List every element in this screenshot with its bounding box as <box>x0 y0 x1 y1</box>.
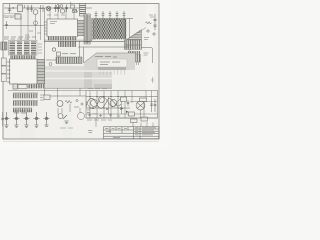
wedge hatch <box>125 28 146 41</box>
scan streak band 3 <box>118 4 130 140</box>
border frame <box>3 4 159 140</box>
analog inner rail 4 <box>130 101 158 103</box>
resistor network zigzag row 3a <box>93 27 127 31</box>
analog label text row <box>87 119 112 121</box>
capacitor C1 <box>8 4 11 13</box>
wire stubs into U1 top <box>50 8 74 19</box>
module board slab upper <box>84 53 135 70</box>
open circle T1 <box>78 113 85 120</box>
extra analog verticals 2 <box>109 97 122 115</box>
wire vertical mid <box>79 41 81 57</box>
wire top rail <box>4 7 92 9</box>
top-right capacitor C7 <box>153 14 156 30</box>
connector J1 ladder <box>84 14 90 44</box>
module pad pins <box>100 70 125 75</box>
connector J3 <box>127 51 141 62</box>
module white label <box>97 59 127 67</box>
vertical drop x21 <box>20 16 22 40</box>
trimmer VR2 <box>14 112 20 128</box>
header pin band 2 <box>125 45 142 49</box>
capacitor C11 in analog <box>127 100 130 106</box>
small zigzag R10 <box>73 10 79 12</box>
stub wires bottom cluster <box>58 104 80 114</box>
capacitor C6 <box>65 5 68 13</box>
analog inner rail 1 <box>86 96 158 98</box>
signal curve 2 <box>86 97 124 109</box>
U1 right pins <box>78 21 85 36</box>
small circle pair A <box>57 5 60 8</box>
red mark above table <box>93 113 97 115</box>
relay K2 box <box>15 14 21 19</box>
U4 left pins <box>7 62 11 82</box>
junction dots analog <box>89 96 118 109</box>
diode D4 <box>44 95 50 100</box>
top-right cluster resistor R3 <box>146 22 152 24</box>
module pad bar <box>98 67 126 70</box>
IC U4 box <box>10 59 38 84</box>
vertical drop x28 <box>27 12 29 40</box>
wire L right <box>142 48 153 64</box>
transistor Q6 <box>91 100 98 107</box>
module label text <box>95 57 120 65</box>
capacitor C12 on left frame <box>1 112 4 126</box>
connector J2 stack <box>1 58 6 82</box>
capacitor C8 <box>150 99 153 112</box>
capacitor C2 <box>27 5 30 12</box>
resistor array RN2 <box>13 101 38 106</box>
resistor R5 <box>129 112 135 116</box>
op-amp U1 box <box>47 19 78 37</box>
module bottom pad row <box>94 84 112 88</box>
resistor R7 <box>131 119 138 123</box>
resistor network zigzag row 5a <box>93 35 127 39</box>
relay K1 <box>18 5 23 12</box>
label dashes right mid <box>144 53 149 55</box>
header pin band 1 <box>125 40 142 45</box>
resistor R9 <box>121 97 127 102</box>
resistor network zigzag row 4b <box>93 31 127 35</box>
capacitor C3 <box>30 5 33 12</box>
capacitor C9 <box>154 99 157 112</box>
resistor network zigzag row 4a <box>93 31 127 35</box>
analog inner rail 3 <box>86 113 158 115</box>
transistor Q4 <box>52 48 55 51</box>
label dashes under caps <box>47 14 65 16</box>
vertical wire x57 <box>57 89 59 101</box>
arrow mark 2 <box>126 111 129 114</box>
U1 internal label <box>50 22 57 24</box>
transistor Q7 <box>99 97 105 103</box>
zigzag block side rails <box>92 20 94 40</box>
label dashes top-left <box>5 17 14 19</box>
glyph row above table <box>88 114 120 118</box>
resistor network zigzag row 2b <box>93 23 127 27</box>
U4 right pin ladder <box>37 60 45 84</box>
page background <box>0 0 170 150</box>
resistor R4 <box>65 100 72 103</box>
transistor Q11 <box>33 21 37 25</box>
label dashes near header <box>144 38 149 40</box>
scan streak band 2 <box>62 4 72 140</box>
label +5V <box>40 95 44 100</box>
node A <box>13 7 14 8</box>
resistor R8 <box>141 117 148 121</box>
analog label row <box>88 87 107 89</box>
bus under U1 <box>44 40 133 42</box>
trimmer VR3 <box>24 112 30 128</box>
resistor R1 <box>39 5 45 12</box>
diode D2 <box>73 10 77 13</box>
wire bottom of analog <box>86 117 158 119</box>
signal curve 1 <box>86 98 121 108</box>
vertical drop x40 <box>40 12 42 40</box>
U1 left pins <box>44 22 47 34</box>
J3 bottom stubs <box>129 62 139 65</box>
vertical wire right drop <box>129 19 131 53</box>
scan streak band 4 <box>146 4 154 140</box>
wire to resistor block <box>92 18 134 20</box>
module darker column <box>84 72 92 88</box>
capacitor C5 <box>57 5 60 13</box>
sheet number text <box>88 131 93 133</box>
resistor network zigzag row 1b <box>93 19 127 23</box>
under-bus comb <box>58 42 76 48</box>
IC U3 banded block <box>9 41 38 56</box>
wire mid-left rail <box>3 25 44 27</box>
analog section box <box>86 91 158 119</box>
transistor Q10 <box>58 114 69 124</box>
left analog marks <box>87 110 90 113</box>
resistor row band <box>56 57 82 64</box>
resistor array RN3 <box>13 108 32 112</box>
vertical wire x80 <box>79 88 81 96</box>
arrow mark 1 <box>121 107 124 110</box>
white wire stripe 2 <box>45 78 112 79</box>
transistor Q2 <box>46 6 51 11</box>
small cross node a <box>146 29 156 36</box>
top-right label <box>149 15 154 17</box>
bottom-left labels <box>13 111 32 113</box>
resistor network zigzag row 2a <box>93 23 127 27</box>
wire module left drop <box>83 47 85 63</box>
U1 bottom pin comb <box>48 37 78 41</box>
module bottom edge <box>45 87 112 89</box>
vertical drops in analog box <box>90 91 125 119</box>
small part dashes <box>74 99 83 107</box>
mid label dashes <box>62 53 76 55</box>
wire mid left horizontal <box>44 95 86 97</box>
component row under U4 <box>13 84 18 89</box>
pin number dashes right of U2 <box>38 44 42 53</box>
capacitor C4 <box>54 5 57 13</box>
resistor array RN1 <box>13 93 38 98</box>
transistor Q1 <box>33 10 38 15</box>
U2 label text <box>4 37 36 39</box>
tick x24 <box>24 5 26 8</box>
vertical wire left of resistor block <box>91 19 93 42</box>
stubs into table top <box>133 122 153 127</box>
wire second rail left <box>3 15 21 17</box>
bottom margin line <box>3 140 159 142</box>
title block <box>104 127 160 139</box>
trimmer VR5 <box>44 112 50 126</box>
transistor Q5 <box>57 101 63 107</box>
trimmer VR1 <box>4 112 10 128</box>
small marks mid-left <box>25 31 41 35</box>
analog inner rail 2 <box>86 107 130 109</box>
white wire stripe 1 <box>45 70 112 71</box>
red junction dot 2 <box>106 108 108 110</box>
module slab lower left <box>84 70 112 88</box>
transistor Q3 <box>60 9 64 13</box>
diode D3 <box>57 52 61 56</box>
bus second line <box>44 39 92 41</box>
trimmer VR4 <box>34 112 40 128</box>
connector J0 top ladder <box>80 4 86 17</box>
scan streak band 1 <box>20 4 34 140</box>
module slab left extension <box>45 66 84 88</box>
pin comb row <box>27 84 44 89</box>
resistor network zigzag row 1a <box>93 19 127 23</box>
wire into title block <box>95 118 97 127</box>
wire stub to frame <box>70 2 72 5</box>
transistor Q9 can <box>136 101 145 110</box>
diode D1 <box>71 5 75 8</box>
small circle pair B <box>60 5 63 8</box>
stub columns to RC array <box>95 11 126 20</box>
long vertical wire left of U1 <box>43 8 45 96</box>
transistor Q8 <box>110 100 117 107</box>
title block text <box>105 128 156 138</box>
red junction dot 1 <box>92 107 94 109</box>
U4 top pin comb <box>10 56 36 60</box>
sheet interior <box>3 4 159 140</box>
small marks left of band <box>46 60 56 66</box>
wire lower top rail <box>4 13 20 15</box>
small glyph right margin <box>151 77 154 83</box>
wire bus top of analog <box>8 90 86 92</box>
IC U2 connector block <box>1 42 7 50</box>
vertical drop x35 <box>35 15 37 41</box>
inductor L1 <box>18 85 27 89</box>
capacitor C10 <box>5 21 8 29</box>
wire above module <box>78 46 130 48</box>
resistor network zigzag row 5b <box>93 35 127 39</box>
resistor R6 <box>140 98 147 102</box>
module slab edge <box>84 53 135 63</box>
faint text bottom <box>60 127 73 129</box>
extra analog verticals <box>132 91 152 119</box>
resistor network zigzag row 3b <box>93 27 127 31</box>
